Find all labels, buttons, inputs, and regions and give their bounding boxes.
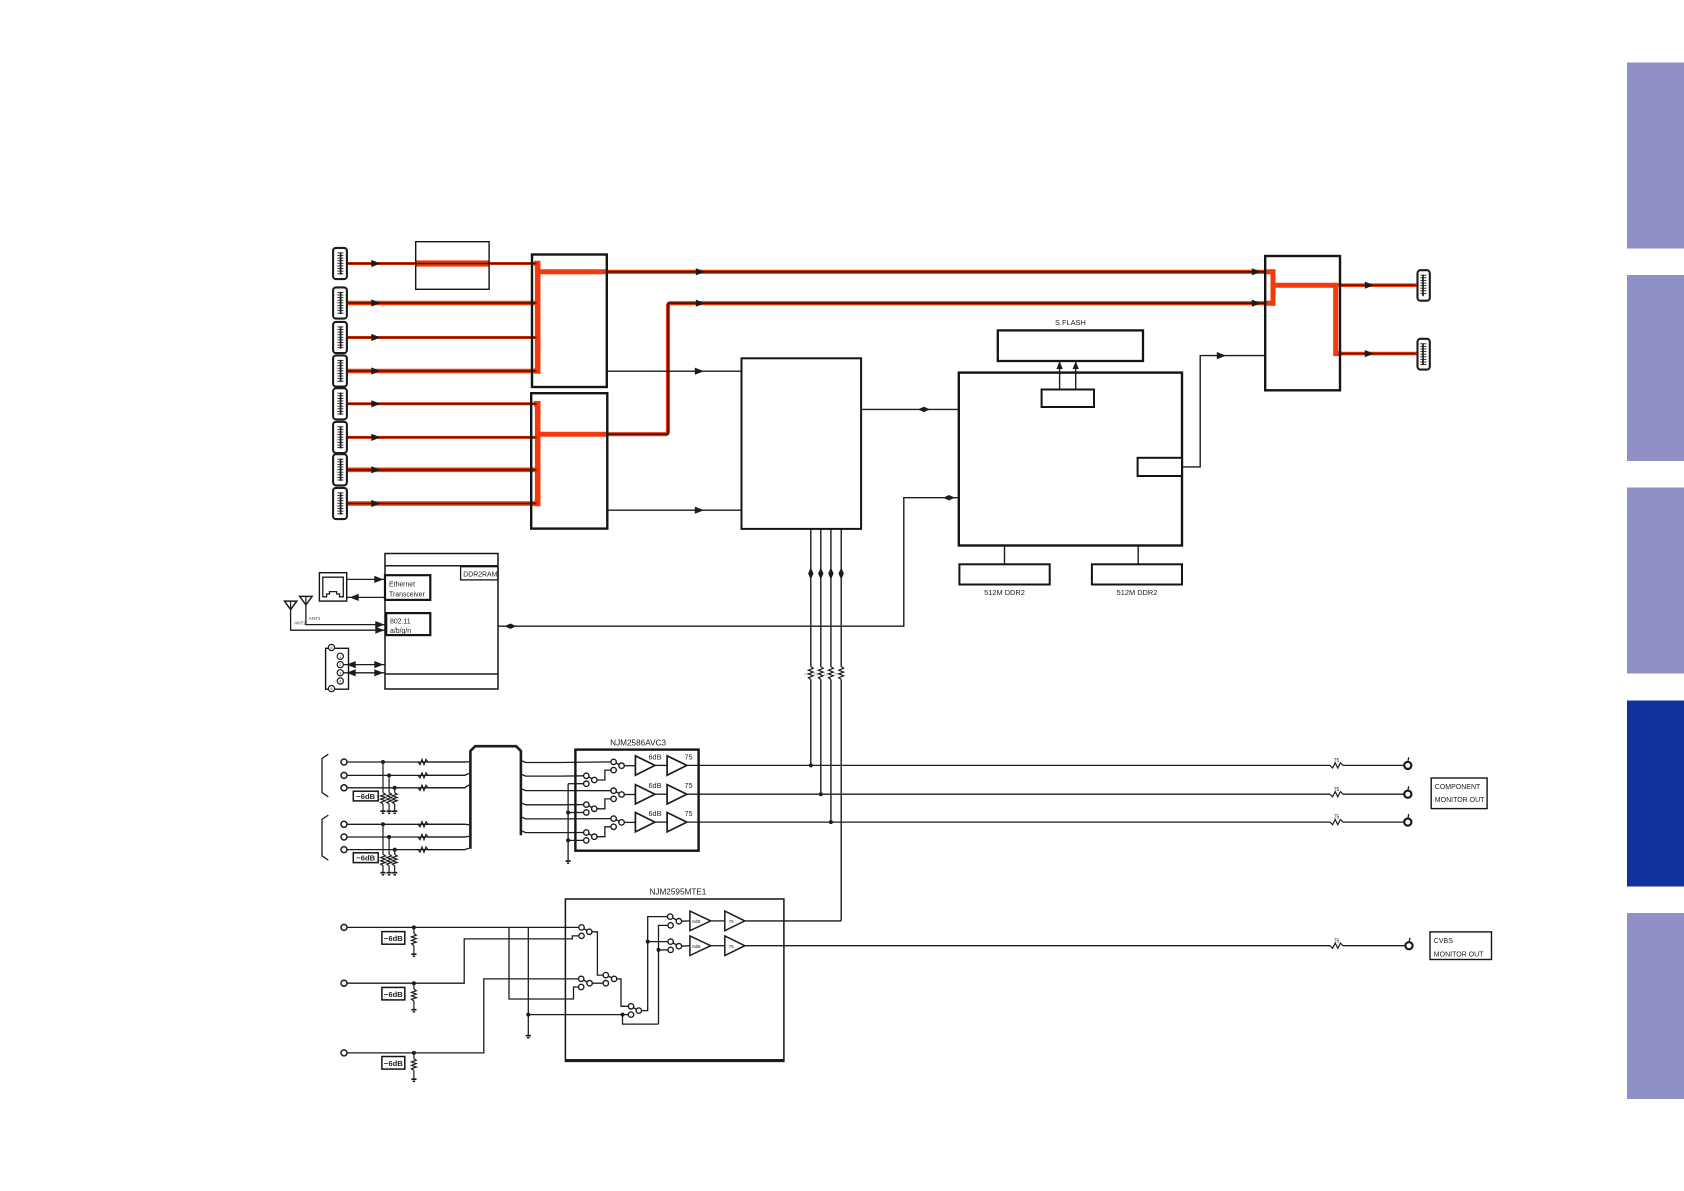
wire lower pole to 6dB amp: [682, 945, 690, 948]
wire red path inside HDMI TX box: [1266, 269, 1342, 356]
node Vb to lower amp contact: [657, 948, 661, 952]
op-amp NJM2595 upper 75 driver: [725, 911, 745, 931]
wire ch2 interstage: [655, 793, 667, 795]
svg-text:5: 5: [330, 646, 332, 650]
box 512M DDR2 memory 2: [1092, 564, 1182, 584]
node input1 shunt junction: [412, 925, 416, 929]
sidebar tab 5: [1627, 913, 1684, 1099]
svg-text:2: 2: [339, 663, 341, 667]
node input3 shunt junction: [412, 1051, 416, 1055]
svg-text:75: 75: [813, 672, 818, 677]
wire CVBS input 3 routed up to SW2: [347, 979, 579, 1053]
box wireless+network module: [385, 554, 498, 690]
svg-text:6dB: 6dB: [649, 752, 662, 761]
switch SW4 output selector: [628, 1004, 641, 1018]
svg-text:75: 75: [685, 781, 693, 790]
wire ch3 pole to amp: [624, 821, 635, 823]
resistor 75 CVBS output: [1330, 943, 1343, 948]
connector CVBS input 1: [341, 924, 347, 930]
wire Vb to lower amp second contact: [659, 949, 668, 951]
arrow to HDMI OUT1: [1365, 282, 1374, 289]
wire bundle out 3 to NJM2586 switch: [521, 789, 611, 791]
op-amp ch1 6dB: [635, 756, 655, 775]
svg-text:3: 3: [339, 671, 341, 675]
wire S.FLASH to controller box pin 1: [1059, 361, 1061, 390]
node mute junction: [526, 1013, 530, 1017]
op-amp ch3 75 driver: [667, 813, 687, 832]
wire input 1 to cable bundle: [428, 761, 469, 763]
ground shunt 1: [380, 810, 385, 812]
box U-SoC: main SoC (unlabeled): [959, 373, 1182, 546]
box NJM2595MTE1 video switch/amp: [565, 899, 784, 1061]
wire red highlight to HDMI OUT connector 1: [1336, 283, 1417, 287]
wire dark core: long line B to HDMI TX: [608, 271, 1264, 273]
wire Vb riser to amp switches: [659, 925, 668, 1024]
box 512M DDR2 memory 1: [959, 564, 1049, 584]
svg-text:MONITOR OUT: MONITOR OUT: [1434, 951, 1484, 958]
arrow up to S.FLASH pin1: [1056, 362, 1062, 370]
svg-text:75: 75: [834, 672, 839, 677]
wire ch3 to monitor jack: [1343, 821, 1404, 823]
resistor shunt CVBS2: [412, 983, 417, 1009]
box -6dB pad group 1: [353, 791, 378, 801]
switch NJM2586 ch1 second selector: [584, 773, 597, 783]
node DAC join ch2: [819, 792, 823, 796]
wire SW4 pole to amp switch riser Va: [641, 917, 667, 1011]
svg-text:DDR2RAM: DDR2RAM: [463, 572, 497, 579]
wire ethernet transceiver to RJ45 (rx): [347, 596, 385, 598]
node mute bus joint ch3: [566, 838, 570, 842]
box -6dB pad CVBS3: [382, 1057, 405, 1070]
node ch3 mute contact: [584, 838, 589, 843]
resistor on CVBS return line: [839, 667, 844, 680]
wire bundle out 5 to NJM2586 switch: [521, 817, 611, 819]
connector HDMI IN 3: [333, 322, 347, 353]
connector component monitor jack ch3: [1404, 819, 1411, 826]
arrow into RJ45: [350, 594, 359, 601]
connector HDMI IN 5: [333, 388, 347, 419]
wire ANT1 to 802.11: [306, 605, 386, 625]
switch NJM2586 ch3 input select: [611, 816, 624, 830]
svg-text:a/b/g/n: a/b/g/n: [390, 628, 411, 635]
wire ch3 open contact elbow: [597, 827, 611, 837]
switch SW2 CVBS select B: [579, 976, 593, 990]
resistor inline input line 6: [418, 847, 428, 852]
node Va to lower amp switch: [646, 940, 650, 944]
switch SW1 CVBS select A: [579, 925, 592, 939]
svg-text:−6dB: −6dB: [356, 792, 375, 801]
connector HDMI OUT 2: [1418, 339, 1430, 370]
node junction input 3 shunt: [393, 786, 397, 790]
op-amp ch3 6dB: [635, 813, 655, 832]
arrows on HDMI input rows: [371, 260, 380, 507]
svg-text:NJM2586AVC3: NJM2586AVC3: [610, 739, 666, 748]
node mute bus joint ch2: [566, 811, 570, 815]
wire input 5 to cable bundle: [428, 835, 469, 838]
wire SoC to DDR2 memory 1: [1004, 546, 1006, 565]
node DAC join ch3: [829, 820, 833, 824]
cable bundle: [470, 746, 521, 849]
ground NJM2586 mute bus: [566, 860, 571, 862]
wire component input 5: [347, 836, 466, 838]
wire ch2 open contact elbow: [597, 799, 611, 809]
wire component input 2: [347, 774, 466, 776]
connector HDMI IN 4: [333, 355, 347, 386]
svg-text:MONITOR OUT: MONITOR OUT: [1435, 797, 1485, 804]
box C: HDMI switch/receiver 2 (unlabeled): [531, 393, 607, 528]
box U-center: video processor (unlabeled): [742, 358, 862, 529]
resistor inline input line 1: [418, 759, 428, 764]
svg-text:ANT2: ANT2: [294, 621, 306, 626]
wire component output ch3: [687, 821, 1330, 823]
bracket input group 1: [322, 754, 328, 797]
svg-text:6dB: 6dB: [649, 781, 662, 790]
wire branch input1 to mute bus: [527, 927, 529, 1014]
connector CVBS input 2: [341, 980, 347, 986]
wire CVBS input 1 to switch SW1: [347, 926, 579, 928]
resistor shunt 2: [387, 775, 392, 810]
wire SoC HDMI port to HDMI TX: [1182, 356, 1265, 467]
resistor shunt CVBS3: [412, 1053, 417, 1079]
resistor inline input line 3: [418, 785, 428, 790]
connector component monitor jack ch1: [1404, 762, 1411, 769]
arrow ANT2 into 802.11: [375, 627, 384, 634]
resistor shunt 5: [387, 837, 392, 872]
svg-text:512M DDR2: 512M DDR2: [984, 588, 1025, 597]
arrow entering HDMI TX line1: [1252, 268, 1261, 275]
op-amp ch1 75 driver: [667, 756, 687, 775]
connector RJ45 ethernet jack: [319, 573, 346, 601]
svg-text:75: 75: [1334, 787, 1340, 793]
svg-text:75: 75: [823, 672, 828, 677]
wire input 2 to cable bundle: [428, 773, 469, 775]
wire ch1 interstage: [655, 764, 667, 766]
svg-text:6dB: 6dB: [692, 919, 700, 924]
wire component input 1: [347, 761, 466, 763]
antenna ANT2: [285, 601, 297, 610]
wire bundle out 2 to NJM2586 switch: [521, 774, 584, 776]
wire DAC line 2 (Pb): [820, 529, 822, 794]
ground CVBS1 shunt: [411, 953, 416, 955]
wire ch1 to monitor jack: [1343, 764, 1404, 766]
wire D-sub pin2 to module: [343, 664, 385, 666]
svg-text:−6dB: −6dB: [384, 990, 403, 999]
node input2 shunt junction: [412, 981, 416, 985]
connector D-sub serial port: [326, 644, 349, 691]
op-amp NJM2595 lower 75 driver: [725, 936, 745, 956]
wire input 4 to cable bundle: [428, 823, 469, 825]
switch SW3 group selector: [603, 972, 617, 986]
op-amp NJM2595 lower 6dB: [690, 936, 711, 956]
resistor shunt CVBS1: [412, 927, 417, 953]
wire dark core: long line C to HDMI TX: [608, 303, 1264, 434]
wire RJ45 to ethernet transceiver (tx): [347, 578, 385, 580]
switch NJM2586 ch2 input select: [611, 788, 624, 802]
connector component monitor jack ch2: [1404, 791, 1411, 798]
wire red highlight to HDMI OUT connector 2: [1340, 352, 1417, 356]
wire branch down to Vb riser: [623, 1015, 659, 1025]
wire bundle out 4 to NJM2586 switch: [521, 803, 584, 805]
svg-text:Ethernet: Ethernet: [389, 581, 415, 588]
ground shunt 3: [392, 810, 397, 812]
node junction input 5 shunt: [387, 835, 391, 839]
connector HDMI OUT 1: [1418, 270, 1430, 301]
resistor inline input line 4: [418, 822, 428, 827]
switch NJM2586 ch2 second selector: [584, 802, 597, 812]
arrow ANT1 into 802.11: [375, 621, 384, 628]
bidirectional arrows on DAC lines: [808, 568, 844, 580]
arrow C->processor: [695, 507, 704, 514]
wire SoC to DDR2 memory 2: [1137, 546, 1139, 565]
wire dark cores on HDMI rows: [346, 264, 537, 504]
svg-text:−6dB: −6dB: [384, 1059, 403, 1068]
wire component output ch1: [687, 764, 1330, 766]
box -6dB pad CVBS2: [382, 987, 405, 1000]
svg-text:COMPONENT: COMPONENT: [1435, 784, 1481, 791]
wire component input 3: [347, 787, 466, 789]
op-amp ch2 6dB: [635, 785, 655, 804]
arrow up to S.FLASH pin2: [1073, 362, 1079, 370]
wire long red highlight: box B to HDMI TX: [606, 270, 1266, 274]
wire lower interstage: [711, 945, 725, 947]
wire ch3 mute stub: [568, 839, 584, 841]
op-amp NJM2595 upper 6dB: [690, 911, 711, 931]
arrows on pin2 wire: [347, 661, 384, 668]
arrow SoC->HDMI TX: [1217, 352, 1226, 359]
connector component input 3: [341, 785, 347, 791]
svg-text:75: 75: [1334, 758, 1340, 764]
ground CVBS2 shunt: [411, 1009, 416, 1011]
wire upper interstage: [711, 920, 725, 922]
box NJM2586AVC3 video amp: [575, 750, 698, 851]
svg-text:ANT1: ANT1: [309, 616, 321, 621]
wire upper pole to 6dB amp: [682, 920, 690, 922]
svg-text:S.FLASH: S.FLASH: [1055, 318, 1086, 327]
arrow B->processor: [695, 368, 704, 375]
wire component output ch2: [687, 793, 1330, 795]
resistor shunt 6: [392, 850, 397, 873]
node DAC join ch1: [809, 763, 813, 767]
connector HDMI IN 6: [333, 422, 347, 453]
svg-text:75: 75: [685, 809, 693, 818]
connector HDMI IN 8: [333, 488, 347, 519]
connector CVBS input 3: [341, 1050, 347, 1056]
box S.FLASH memory: [998, 330, 1143, 361]
svg-text:4: 4: [339, 680, 341, 684]
sidebar tab 4 (active): [1627, 701, 1684, 887]
sidebar tab 3: [1627, 488, 1684, 674]
wire ch2 to monitor jack: [1343, 793, 1404, 795]
wire SW3 pole to SW4: [617, 979, 629, 1006]
wire box B to video processor: [607, 370, 742, 372]
switch NJM2586 ch3 second selector: [584, 830, 597, 840]
svg-text:802.11: 802.11: [390, 618, 411, 625]
value labels 75 on DAC line resistors: [803, 672, 839, 677]
wire mute bus to SW4: [528, 1014, 628, 1016]
resistor 75 output ch2: [1330, 792, 1343, 797]
wire ch1 pole to amp: [624, 765, 635, 767]
node junction input 2 shunt: [387, 773, 391, 777]
node ch1 mute contact: [584, 781, 589, 786]
wire mute bus with ground (NJM2586): [567, 784, 569, 861]
arrow to HDMI OUT2: [1365, 350, 1374, 357]
antenna ANT1: [300, 596, 312, 605]
resistor inline input line 2: [418, 773, 428, 778]
wire network module to SoC: [498, 498, 959, 627]
box 802.11 a/b/g/n: [386, 613, 430, 635]
wire red bus bar inside HDMI switch box C: [534, 404, 607, 504]
svg-text:Transceiver: Transceiver: [389, 591, 425, 598]
op-amp ch2 75 driver: [667, 785, 687, 804]
resistor on DAC line 2: [818, 667, 823, 680]
ground shunt 6: [392, 872, 397, 874]
arrow entering HDMI TX line2: [1252, 300, 1261, 307]
wire D-sub pin3 to module: [343, 672, 385, 674]
resistor on DAC line 1: [808, 667, 813, 680]
svg-text:1: 1: [339, 655, 341, 659]
wire dark core: HDMI TX to OUT1: [1341, 284, 1416, 286]
sidebar tab 2: [1627, 275, 1684, 461]
node branch to Vb: [621, 1013, 625, 1017]
wire CVBS output to monitor jack: [745, 945, 1330, 947]
bidirectional arrow module<->SoC (right): [943, 495, 955, 500]
svg-text:512M DDR2: 512M DDR2: [1117, 588, 1158, 597]
svg-text:75: 75: [729, 919, 735, 924]
wire bundle out 6 to NJM2586 switch: [521, 831, 584, 833]
connector component input 4: [341, 821, 347, 827]
node ch2 mute contact: [584, 810, 589, 815]
connector CVBS monitor jack: [1405, 942, 1412, 949]
wire CVBS to jack: [1343, 945, 1405, 947]
ground CVBS3 shunt: [411, 1078, 416, 1080]
wire component input 4: [347, 823, 466, 825]
wire ch2 pole to amp: [624, 794, 635, 796]
svg-text:NJM2595MTE1: NJM2595MTE1: [649, 888, 706, 897]
arrow into transceiver: [374, 576, 383, 583]
wire input 3 to cable bundle: [428, 785, 469, 788]
connector component input 6: [341, 847, 347, 853]
connector HDMI IN 7: [333, 454, 347, 485]
wire ANT2 to 802.11: [291, 610, 387, 631]
wire video processor to SoC: [861, 408, 959, 410]
box COMPONENT MONITOR OUT: [1431, 778, 1487, 809]
ground shunt 4: [380, 872, 385, 874]
box CVBS MONITOR OUT: [1430, 932, 1492, 960]
bracket input group 2: [322, 815, 328, 860]
node junction input 6 shunt: [393, 848, 397, 852]
box -6dB pad CVBS1: [382, 932, 405, 945]
wire ch2 mute stub: [568, 812, 584, 814]
wire CVBS line from NJM2595 to video processor: [745, 529, 841, 921]
svg-text:75: 75: [1334, 815, 1340, 821]
box HDMI port block on SoC edge: [1138, 458, 1182, 476]
wire box C to video processor: [607, 509, 741, 511]
arrow on long red line C->TX: [696, 300, 705, 307]
box flash controller inside SoC: [1042, 390, 1094, 408]
svg-text:75: 75: [803, 672, 808, 677]
svg-text:75: 75: [729, 944, 735, 949]
svg-text:75: 75: [1334, 938, 1340, 944]
wire DAC line 1 (Y) from video processor: [810, 529, 812, 766]
wire S.FLASH to controller box pin 2: [1075, 361, 1077, 390]
sidebar tab 1: [1627, 63, 1684, 249]
connector component input 1: [341, 759, 347, 765]
wire branch input1 to SW2 second contact: [509, 927, 579, 999]
arrows on pin3 wire: [347, 669, 384, 676]
box A: HDMI input filter (unlabeled): [416, 242, 489, 290]
wire long red highlight: box C up and to HDMI TX: [606, 303, 1266, 434]
wire SW2 pole to SW3: [592, 982, 603, 984]
svg-text:6dB: 6dB: [649, 809, 662, 818]
resistor 75 output ch3: [1330, 820, 1343, 825]
ground shunt 2: [387, 810, 392, 812]
box B: HDMI switch/receiver 1 (unlabeled): [532, 255, 607, 388]
connector HDMI IN 1: [333, 248, 347, 279]
wire ch3 interstage: [655, 821, 667, 823]
connector component input 5: [341, 834, 347, 840]
ground CVBS mute: [526, 1035, 531, 1037]
resistor shunt 1: [381, 762, 386, 811]
svg-text:−6dB: −6dB: [384, 934, 403, 943]
switch NJM2586 ch1 input select: [611, 759, 624, 773]
svg-text:6: 6: [330, 687, 332, 691]
bidirectional arrow module<->SoC (left): [504, 624, 516, 629]
bidirectional arrow processor<->SoC: [918, 407, 930, 412]
arrow on long red line B->TX: [696, 268, 705, 275]
box -6dB pad group 2: [353, 853, 378, 863]
wire red bus bar inside HDMI switch box B: [534, 264, 607, 372]
svg-text:−6dB: −6dB: [356, 854, 375, 863]
resistor on DAC line 3: [829, 667, 834, 680]
box HDMI transmitter (unlabeled): [1265, 256, 1340, 390]
connector HDMI IN 2: [333, 287, 347, 318]
svg-text:CVBS: CVBS: [1434, 938, 1453, 945]
resistor inline input line 5: [418, 834, 428, 839]
wire ch1 open contact elbow: [597, 770, 611, 780]
box DDR2RAM label: [461, 567, 498, 580]
wire mute bus to ground: [527, 1015, 529, 1036]
connector component input 2: [341, 772, 347, 778]
switch upper amp input select: [668, 914, 682, 928]
switch lower amp input select: [668, 939, 682, 953]
ground shunt 5: [387, 872, 392, 874]
node junction input 1 shunt: [381, 760, 385, 764]
wire bundle out 1 to NJM2586 switch: [521, 761, 611, 763]
resistor shunt 4: [381, 824, 386, 872]
wire component input 6: [347, 849, 466, 851]
resistor shunt 3: [392, 788, 397, 811]
wire Va to lower amp contact: [648, 941, 668, 943]
wire CVBS input 2 routed up to SW1 second contact: [347, 936, 579, 983]
box Ethernet Transceiver: [385, 575, 430, 600]
wire DAC line 3 (Pr): [830, 529, 832, 822]
wire highlighted HDMI input rows (bright red underlay): [345, 264, 539, 504]
wire ch1 mute stub: [568, 783, 584, 785]
wire dark core: HDMI TX to OUT2: [1341, 353, 1416, 355]
wire SW1 pole down to SW3: [592, 932, 603, 975]
svg-text:6dB: 6dB: [692, 944, 700, 949]
node junction input 4 shunt: [381, 822, 385, 826]
wire input 6 to cable bundle: [428, 848, 469, 849]
resistor 75 output ch1: [1330, 763, 1343, 768]
svg-text:75: 75: [685, 752, 693, 761]
